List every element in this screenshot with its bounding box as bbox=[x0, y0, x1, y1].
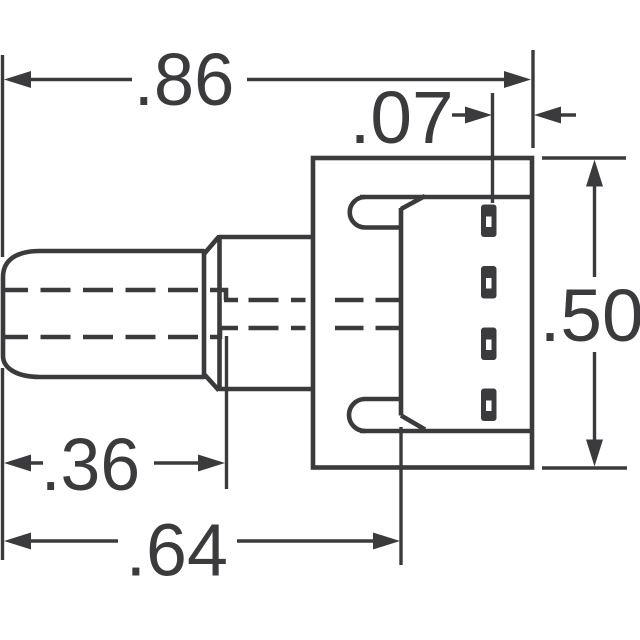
svg-text:.50: .50 bbox=[540, 274, 640, 357]
svg-text:.64: .64 bbox=[126, 509, 228, 592]
svg-text:.07: .07 bbox=[350, 76, 454, 159]
svg-text:.36: .36 bbox=[41, 423, 140, 506]
svg-text:.86: .86 bbox=[134, 38, 235, 121]
